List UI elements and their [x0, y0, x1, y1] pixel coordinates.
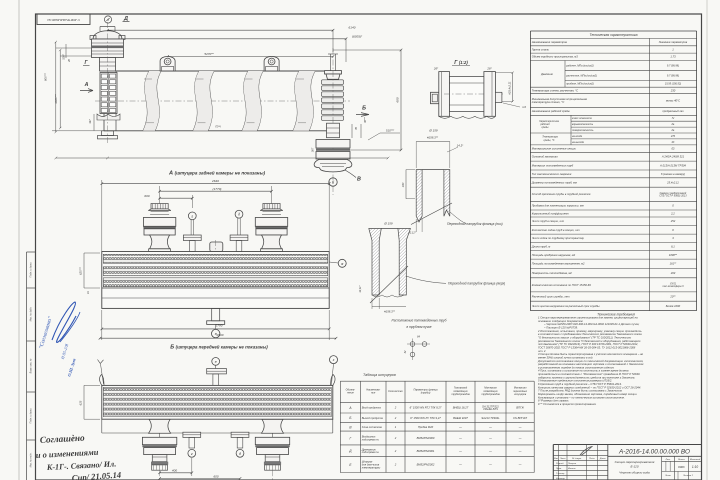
svg-text:(1770): (1770) [213, 187, 222, 191]
svg-text:—: — [488, 464, 492, 467]
svg-text:ВПГЖ: ВПГЖ [516, 406, 524, 410]
svg-text:Д: Д [123, 16, 128, 22]
marker circle v bottom [212, 329, 220, 337]
svg-text:А-2016-14.00.00.000 ВО: А-2016-14.00.00.000 ВО [618, 449, 690, 456]
svg-text:ВМ52/РМ2001: ВМ52/РМ2001 [417, 449, 435, 453]
svg-text:Подп. и дата: Подп. и дата [30, 408, 33, 424]
right pipe stub [495, 92, 502, 102]
svg-text:расчетное, МПа (кгс/см2): расчетное, МПа (кгс/см2) [565, 74, 597, 77]
svg-text:Расположение потокведенных тру: Расположение потокведенных труб [392, 318, 447, 322]
svg-text:Количество: Количество [388, 390, 403, 393]
svg-text:ПО 00П0Г0П0ГЧЕ-9К0Г-Ч: ПО 00П0Г0П0ГЧЕ-9К0Г-Ч [47, 18, 80, 22]
svg-text:5270**: 5270** [204, 52, 214, 56]
doc number cell [607, 445, 609, 480]
signature squiggle in title block [580, 447, 592, 456]
svg-text:276: 276 [670, 135, 676, 138]
svg-text:625: 625 [79, 400, 83, 405]
svg-text:2,2: 2,2 [670, 211, 675, 215]
svg-text:/ЛАНШ-5ЛЧ: /ЛАНШ-5ЛЧ [482, 407, 498, 411]
sheet edge shadow left [18, 0, 20, 480]
svg-text:Площадь потокведенная внутренн: Площадь потокведенная внутренняя, м2 [532, 262, 585, 266]
svg-text:пожароопасность: пожароопасность [572, 129, 594, 132]
view A body [102, 252, 329, 309]
view A gauge nozzle 2 [235, 210, 243, 218]
right nozzle neck below shell [327, 123, 340, 138]
svg-text:ВМ52/РМ2002: ВМ52/РМ2002 [417, 463, 435, 467]
svg-text:Т.контр.: Т.контр. [556, 473, 565, 475]
svg-text:среды: среды [542, 126, 549, 129]
skirt line [102, 287, 329, 289]
right nozzle assembly (bellows) [330, 54, 332, 71]
svg-text:180: 180 [401, 182, 405, 187]
svg-text:ВМ52/РМ2000: ВМ52/РМ2000 [417, 436, 435, 440]
svg-text:—: — [458, 450, 462, 453]
left nozzle internals in shell [100, 73, 117, 114]
marker circle right of view A [338, 259, 346, 267]
shell break bands [143, 71, 149, 131]
svg-text:температуры: температуры [362, 466, 381, 469]
svg-text:Инв. № дубл.: Инв. № дубл. [30, 306, 33, 321]
svg-text:трубопроводов: трубопроводов [481, 393, 500, 396]
svg-text:температура стенки, °С: температура стенки, °С [532, 100, 565, 104]
right flange [484, 72, 496, 117]
svg-text:Лист: Лист [559, 458, 566, 460]
svg-text:Наименование параметров: Наименование параметров [532, 40, 568, 44]
left form strip cells [26, 252, 28, 480]
view B big nozzle 2 [262, 419, 284, 433]
left nozzle assembly [93, 31, 122, 39]
tube walls detail 1 [416, 170, 422, 222]
svg-text:600±: 600± [678, 465, 685, 469]
wavy break bottom of detail G [439, 116, 496, 118]
svg-text:Разраб.: Разраб. [556, 463, 564, 465]
svg-text:Пробка М20: Пробка М20 [418, 425, 434, 429]
svg-text:Основной материал: Основной материал [532, 155, 559, 159]
svg-text:1:10: 1:10 [692, 465, 698, 469]
dim 6140 [108, 29, 334, 31]
left nozzle tail below shell [102, 131, 114, 136]
view B top gauge nozzle [212, 358, 220, 366]
svg-text:20: 20 [68, 59, 71, 63]
svg-text:—: — [458, 437, 462, 440]
diagonal break detail 1 [411, 203, 452, 225]
bellows ribs [322, 80, 344, 85]
svg-text:SA213 ТР304L: SA213 ТР304L [481, 416, 500, 420]
svg-text:Б: Б [362, 106, 366, 112]
svg-text:1025***: 1025*** [54, 93, 58, 103]
svg-text:ВНЕШ К297: ВНЕШ К297 [453, 416, 468, 420]
svg-text:на выходе: на выходе [572, 141, 585, 144]
svg-text:г: г [191, 452, 193, 456]
view B gauge nozzle 2 [231, 432, 249, 437]
svg-text:Переходной патрубок фланца (ве: Переходной патрубок фланца (верх) [448, 282, 505, 286]
svg-text:взрывоопасность: взрывоопасность [572, 123, 594, 126]
svg-text:26*: 26* [433, 66, 439, 70]
svg-text:Изм: Изм [554, 458, 559, 460]
right nozzle bottom cap [314, 160, 352, 172]
svg-text:Петров: Петров [568, 463, 577, 465]
svg-text:—: — [488, 426, 492, 429]
svg-text:тип атмосферы II: тип атмосферы II [662, 285, 684, 288]
lifting lug 2 [264, 57, 279, 72]
svg-text:Группа стали: Группа стали [532, 47, 550, 51]
svg-text:—: — [488, 450, 492, 453]
svg-text:2790: 2790 [215, 324, 223, 328]
view A big nozzle 2 [263, 204, 280, 209]
svg-text:Таблица штуцеров: Таблица штуцеров [363, 373, 396, 377]
lit massa masshtab cells [674, 456, 676, 480]
svg-text:Вход продукта: Вход продукта [362, 406, 382, 410]
svg-text:9,7 (98,98): 9,7 (98,98) [667, 74, 679, 77]
long dim under main view [56, 157, 388, 159]
detail 1 left dim 180 [405, 170, 407, 199]
svg-text:510***: 510*** [386, 129, 395, 133]
svg-text:1,73: 1,73 [670, 55, 676, 59]
svg-text:Коррозионный коэффициент: Коррозионный коэффициент [532, 211, 570, 215]
svg-text:230: 230 [670, 88, 676, 92]
svg-text:14,3°: 14,3° [457, 143, 464, 147]
view A gauge nozzle 1 [188, 212, 196, 220]
dims below view B [160, 472, 192, 474]
leader label detail 2 [406, 276, 446, 283]
svg-text:—: — [518, 426, 522, 429]
svg-text:на входе: на входе [572, 135, 583, 138]
svg-text:2640: 2640 [211, 179, 219, 183]
svg-text:6,1: 6,1 [671, 244, 675, 248]
svg-text:—: — [458, 464, 462, 467]
svg-text:А 240/А 240М 321: А 240/А 240М 321 [661, 155, 685, 159]
dims below view A [102, 328, 329, 330]
vessel centerline [95, 100, 350, 102]
svg-text:25,4х2,11: 25,4х2,11 [666, 180, 679, 184]
svg-text:СТБ ГОСТ Р 55601-2013: СТБ ГОСТ Р 55601-2013 [659, 195, 687, 198]
svg-text:(трубы): (трубы) [421, 391, 431, 394]
svg-text:400: 400 [172, 468, 177, 472]
marker circle right of view B [330, 356, 338, 364]
svg-text:Ø 159: Ø 159 [428, 129, 438, 133]
view B left dims [83, 385, 85, 419]
svg-text:трубопроводов: трубопроводов [451, 393, 470, 396]
svg-text:Поверхность теплообмена, м2: Поверхность теплообмена, м2 [532, 271, 573, 275]
svg-text:Более 1000: Более 1000 [666, 304, 681, 308]
svg-text:Климатическое исполнение по ГО: Климатическое исполнение по ГОСТ 15150-6… [532, 283, 592, 287]
view marker D circle [104, 16, 111, 23]
svg-text:#25,4x2,11: #25,4x2,11 [507, 81, 511, 95]
perforated bands view A [103, 254, 327, 263]
svg-text:—: — [518, 464, 522, 467]
svg-text:Ø 159: Ø 159 [383, 221, 393, 225]
svg-text:Б: Б [349, 416, 351, 420]
right side dims of main view [400, 50, 402, 150]
dim 600 top [160, 197, 193, 199]
leader label detail 1 [450, 212, 466, 224]
svg-text:рабочее, МПа (кгс/см2): рабочее, МПа (кгс/см2) [565, 64, 593, 67]
svg-text:А (штуцера задней камеры не по: А (штуцера задней камеры не показаны) [168, 170, 266, 177]
svg-text:А: А [84, 82, 89, 88]
svg-text:Е-120: Е-120 [630, 464, 638, 468]
svg-text:ГОСТ 30870-2002 ГОСТ Р 13364-М: ГОСТ 30870-2002 ГОСТ Р 13364-МК 26-03-00… [538, 345, 636, 349]
dim 2640 [102, 183, 329, 185]
view A big nozzle 1 [151, 204, 168, 209]
dim 1770 [160, 190, 272, 192]
left flange [439, 72, 450, 117]
svg-text:—: — [518, 450, 522, 453]
detail 1 bottom dims [415, 219, 417, 232]
svg-text:в трубном пучке: в трубном пучке [406, 325, 431, 329]
svg-text:Масса: Масса [678, 459, 685, 461]
svg-text:е: е [215, 360, 217, 364]
svg-text:#158,3**: #158,3** [384, 310, 396, 314]
tube walls detail 2 [369, 229, 382, 296]
svg-text:530*: 530* [61, 53, 65, 59]
svg-text:А-213/А-213М ТР304: А-213/А-213М ТР304 [659, 163, 686, 167]
svg-text:ПУЧ: ПУЧ [215, 125, 221, 129]
view A small box nozzle [210, 242, 223, 252]
svg-text:IV: IV [672, 117, 675, 120]
svg-text:Переходной патрубок фланца (ни: Переходной патрубок фланца (низ) [447, 222, 503, 226]
svg-text:минус 40°С: минус 40°С [666, 98, 680, 102]
svg-text:Подп.: Подп. [589, 457, 595, 460]
blue signature flourish [52, 302, 76, 343]
svg-text:Г: Г [350, 436, 352, 440]
svg-text:Прибавка для компенсации корро: Прибавка для компенсации коррозии, мм [532, 204, 584, 208]
rear face line below view B [102, 432, 333, 434]
svg-text:Значение параметров: Значение параметров [659, 40, 688, 44]
svg-text:д: д [238, 213, 240, 217]
weld flag left of view B [101, 364, 104, 384]
svg-text:подогрева пн.: подогрева пн. [362, 437, 380, 441]
svg-text:Слив остатков: Слив остатков [362, 425, 383, 429]
left dim column [55, 42, 57, 132]
svg-text:штуцеров: штуцеров [514, 393, 527, 396]
svg-text:Объем трубного пространства, м: Объем трубного пространства, м3 [532, 55, 579, 59]
svg-text:26*: 26* [486, 66, 492, 70]
svg-text:б (заково в камеру): б (заково в камеру) [661, 172, 685, 176]
svg-text:600: 600 [144, 194, 149, 198]
svg-text:Лист: Лист [664, 475, 671, 477]
bottom nozzle view A [212, 308, 220, 320]
svg-text:В: В [357, 177, 361, 183]
svg-text:Подп. и дата: Подп. и дата [30, 262, 33, 278]
svg-text:№ докум.: № докум. [572, 457, 582, 460]
vessel shell [116, 70, 330, 72]
svg-text:CS ВПГЖЛ: CS ВПГЖЛ [513, 416, 527, 420]
svg-text:Дата: Дата [599, 458, 607, 460]
dim 5270 [168, 56, 333, 58]
svg-text:Диаметр потокведенных труб, мм: Диаметр потокведенных труб, мм [531, 180, 577, 184]
svg-text:Давление: Давление [540, 72, 553, 76]
right nozzle flange stack [316, 140, 350, 149]
view letter V leader [345, 170, 356, 178]
svg-text:161**: 161** [670, 262, 678, 266]
svg-text:пробное, МПа (кгс/см2): пробное, МПа (кгс/см2) [566, 83, 594, 86]
svg-text:Иванов: Иванов [568, 468, 576, 470]
svg-text:—: — [518, 437, 522, 440]
svg-text:Инв. № подл.: Инв. № подл. [30, 452, 33, 467]
svg-text:Расчетный срок службы, лет: Расчетный срок службы, лет [532, 294, 571, 298]
corner hooks view B [100, 375, 104, 386]
svg-text:А: А [348, 406, 351, 410]
perforated area view B [103, 387, 331, 416]
marker circle b [329, 178, 337, 186]
svg-text:д: д [239, 452, 241, 456]
svg-text:800***: 800*** [44, 72, 48, 81]
svg-text:9,7 (98,98): 9,7 (98,98) [667, 64, 679, 67]
svg-text:Наименование рабочей среды: Наименование рабочей среды [532, 109, 570, 113]
svg-text:ние: ние [371, 391, 376, 394]
svg-text:—: — [458, 426, 462, 429]
svg-text:Техническая характеристика: Техническая характеристика [589, 33, 637, 37]
left square boss [431, 92, 440, 103]
svg-text:п.6: п.6 [522, 105, 526, 109]
svg-text:Взам. инв. №: Взам. инв. № [30, 358, 33, 373]
svg-text:Пров.: Пров. [556, 468, 562, 470]
dim 6305 [100, 38, 346, 40]
svg-text:чение: чение [347, 391, 354, 394]
svg-text:20**: 20** [669, 294, 676, 298]
svg-text:12,11°: 12,11° [358, 285, 362, 292]
pipe body [450, 77, 484, 112]
tube layout diagram [410, 342, 415, 347]
svg-text:Материальное исполнение секции: Материальное исполнение секции [532, 147, 577, 151]
sheet edge shadow right [706, 0, 708, 480]
svg-text:6140: 6140 [349, 26, 356, 30]
svg-text:252: 252 [670, 219, 676, 223]
svg-text:среды, °С: среды, °С [544, 139, 555, 142]
svg-text:класс опасности: класс опасности [572, 117, 593, 120]
svg-text:625***: 625*** [79, 266, 83, 275]
svg-text:Выход продукта: Выход продукта [362, 416, 384, 420]
svg-text:6" 1500 WN ЛУ ТЛК 9,27: 6" 1500 WN ЛУ ТЛК 9,27 [410, 416, 441, 420]
svg-text:Площадь оребрения наружная, м2: Площадь оребрения наружная, м2 [532, 253, 576, 257]
title text cell [661, 456, 663, 480]
view B gauge nozzle 1 [183, 432, 201, 437]
svg-text:Тип сантехнического сварения: Тип сантехнического сварения [532, 172, 572, 176]
svg-text:ВНЕШ 16,27: ВНЕШ 16,27 [453, 406, 469, 410]
lifting lug 1 [160, 57, 175, 72]
view B big nozzle 1 [149, 419, 171, 433]
svg-text:Число ходов по трубному простр: Число ходов по трубному пространству [532, 236, 585, 240]
view A left dims [83, 253, 85, 288]
svg-text:9 ** Уточняется в процессе про: 9 ** Уточняется в процессе проектировани… [538, 402, 597, 406]
diagonal break detail 2 [370, 266, 408, 303]
svg-text:Масштаб: Масштаб [690, 459, 701, 461]
svg-text:Листов 1: Листов 1 [682, 475, 694, 477]
svg-text:з: з [332, 358, 335, 362]
svg-text:2600: 2600 [216, 333, 224, 337]
svg-text:1898**: 1898** [669, 253, 678, 257]
svg-text:Количество ходов труб в секции: Количество ходов труб в секции, шт [532, 228, 581, 232]
svg-text:Температура стенки расчетная,: Температура стенки расчетная, °С [532, 88, 578, 92]
svg-text:Материал потокведенных труб: Материал потокведенных труб [532, 163, 574, 167]
svg-text:Число циклов нагружения за рас: Число циклов нагружения за расчетный сро… [532, 304, 600, 308]
view B body [102, 385, 333, 419]
svg-text:203: 203 [670, 271, 676, 275]
svg-text:(6305)*: (6305)* [352, 34, 363, 38]
top-left stamp box [37, 14, 90, 25]
svg-text:Длина труб, м: Длина труб, м [531, 244, 551, 248]
svg-text:г: г [191, 214, 193, 218]
svg-text:397: 397 [88, 119, 92, 124]
svg-text:600: 600 [396, 97, 400, 102]
svg-text:6" 1500 WN RTJ ТЛК 9,27: 6" 1500 WN RTJ ТЛК 9,27 [410, 406, 442, 410]
svg-text:03: 03 [671, 147, 674, 151]
svg-text:Число труб в секции, шт: Число труб в секции, шт [532, 219, 565, 223]
svg-text:367: 367 [311, 147, 315, 152]
svg-text:подогрева пн.: подогрева пн. [362, 450, 380, 454]
svg-text:Лит.: Лит. [664, 459, 671, 461]
svg-text:—: — [488, 437, 492, 440]
svg-text:#158,3**: #158,3** [427, 136, 439, 140]
svg-text:Чертеж общего вида: Чертеж общего вида [619, 471, 650, 475]
svg-text:600: 600 [213, 475, 218, 479]
svg-text:продувочный газ: продувочный газ [662, 109, 684, 113]
svg-text:д: д [107, 18, 109, 22]
svg-text:15,55 (156,52): 15,55 (156,52) [665, 83, 681, 86]
svg-text:Способ крепления трубы в трубн: Способ крепления трубы в трубной решетке [532, 192, 591, 196]
title block change rows [553, 449, 608, 451]
